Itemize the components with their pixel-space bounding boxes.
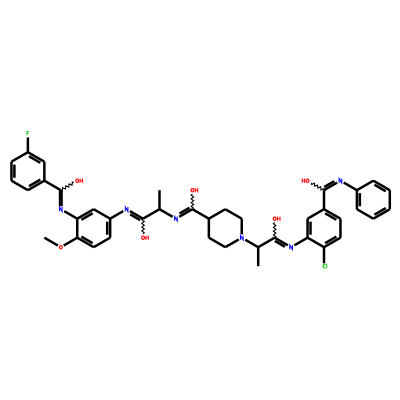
atom label N1 bbox=[60, 207, 63, 211]
bond ring A to C2 bbox=[44, 181, 60, 191]
atom label OH (on C3) bbox=[142, 236, 149, 240]
double bond C7=N5 bbox=[275, 238, 288, 247]
wavy bond C7-OH bbox=[273, 223, 276, 238]
wavy bond C5-OH bbox=[191, 194, 194, 209]
wavy bond C2-OH bbox=[61, 182, 74, 191]
atom label F (fluorine) bbox=[26, 131, 29, 135]
benzene ring B (methoxyphenyl) bbox=[77, 209, 110, 247]
atom label OH (on C2) bbox=[76, 179, 83, 183]
atom label N4 (piperidine N) bbox=[240, 236, 243, 240]
wavy bond C3-OH bbox=[142, 219, 145, 234]
bond ring D to Cl bbox=[323, 247, 326, 263]
bond C3-C4 bbox=[143, 209, 159, 219]
bond O-CH3 (methoxy methyl) bbox=[44, 238, 58, 246]
bond ring B to O (methoxy) bbox=[64, 238, 78, 246]
bond N5 to ring D bbox=[294, 238, 307, 246]
atom label N5 bbox=[290, 245, 293, 249]
atom label OH (on C5) bbox=[191, 188, 198, 192]
double bond C2=N1 bbox=[60, 190, 62, 206]
bond C4 methyl bbox=[158, 190, 161, 209]
bond C4-N3 bbox=[160, 209, 173, 217]
bond C6-C7 bbox=[258, 238, 274, 248]
atom label HO (on C8) bbox=[302, 179, 309, 183]
atom label Cl (chlorine) bbox=[323, 263, 327, 268]
double bond N3=C5 bbox=[179, 208, 192, 217]
piperidine ring C bbox=[209, 209, 242, 247]
benzene ring A (3-fluorophenyl) bbox=[11, 152, 44, 190]
atom label N2 bbox=[125, 207, 128, 211]
bond N1 to ring B bbox=[64, 211, 77, 219]
double bond C8=N6 bbox=[324, 181, 337, 190]
bond ring D to C8 bbox=[323, 190, 326, 209]
benzene ring D (chlorophenyl) bbox=[308, 209, 341, 247]
bond C5 to piperidine bbox=[192, 209, 208, 219]
bond N6 to ring E bbox=[344, 183, 357, 191]
double bond N2=C3 bbox=[130, 211, 143, 220]
bond C6 methyl bbox=[257, 247, 260, 266]
bond F to ring A bbox=[27, 137, 30, 152]
atom label OH (on C7) bbox=[273, 217, 280, 221]
atom label N3 bbox=[175, 217, 178, 221]
benzene ring E (phenyl) bbox=[357, 181, 390, 219]
atom label O (methoxy) bbox=[59, 246, 62, 249]
atom label N6 bbox=[339, 179, 342, 183]
wavy bond C8-OH bbox=[311, 183, 324, 190]
bond N4 to C6 bbox=[245, 240, 258, 248]
bond ring B to N2 bbox=[110, 211, 123, 219]
